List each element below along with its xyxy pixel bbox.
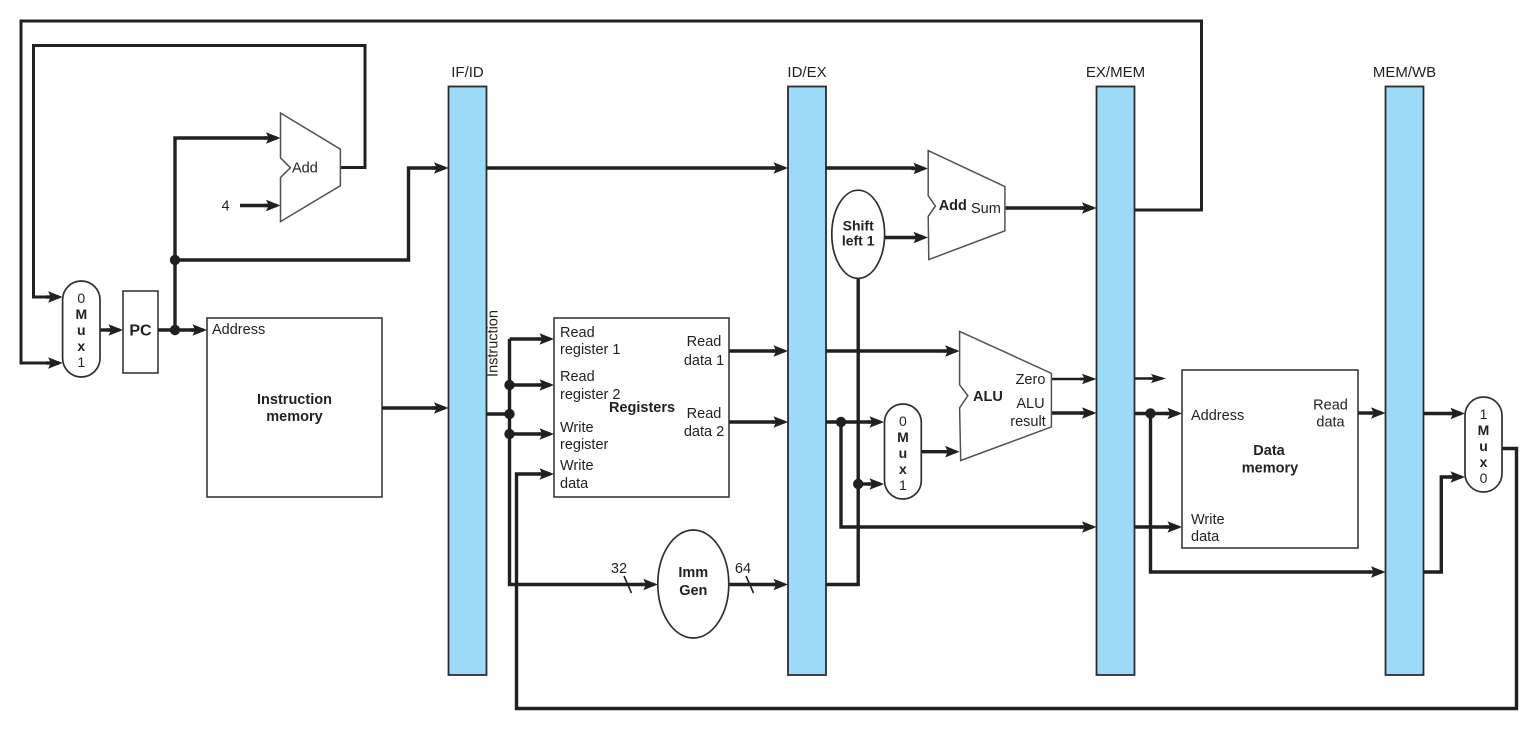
svg-text:4: 4	[221, 199, 229, 215]
svg-text:Read: Read	[560, 369, 595, 385]
svg-text:u: u	[1479, 438, 1488, 454]
svg-text:M: M	[897, 429, 909, 445]
svg-text:result: result	[1010, 414, 1045, 430]
svg-text:M: M	[75, 306, 87, 322]
svg-text:data 2: data 2	[684, 424, 724, 440]
svg-text:Read: Read	[687, 334, 722, 350]
svg-text:Read: Read	[560, 325, 595, 341]
svg-text:Instruction: Instruction	[486, 310, 502, 377]
svg-text:left 1: left 1	[842, 233, 875, 249]
svg-text:Sum: Sum	[971, 201, 1001, 217]
svg-text:memory: memory	[1242, 461, 1298, 477]
svg-text:IF/ID: IF/ID	[451, 64, 484, 81]
svg-text:Write: Write	[560, 458, 594, 474]
svg-text:64: 64	[735, 561, 751, 577]
svg-text:x: x	[77, 338, 85, 354]
svg-text:0: 0	[77, 290, 85, 306]
svg-text:Gen: Gen	[679, 583, 707, 599]
svg-text:M: M	[1478, 422, 1490, 438]
svg-text:1: 1	[1480, 406, 1488, 422]
svg-text:Read: Read	[687, 406, 722, 422]
svg-text:memory: memory	[266, 409, 322, 425]
svg-text:register 1: register 1	[560, 342, 620, 358]
svg-text:ALU: ALU	[973, 389, 1003, 405]
svg-text:ID/EX: ID/EX	[787, 64, 826, 81]
svg-text:MEM/WB: MEM/WB	[1373, 64, 1436, 81]
svg-text:data: data	[1191, 529, 1220, 545]
svg-text:ALU: ALU	[1016, 396, 1044, 412]
svg-text:0: 0	[899, 413, 907, 429]
svg-text:register: register	[560, 437, 609, 453]
svg-text:Write: Write	[1191, 512, 1225, 528]
svg-text:Write: Write	[560, 420, 594, 436]
svg-text:Data: Data	[1253, 443, 1285, 459]
svg-text:Read: Read	[1313, 398, 1348, 414]
svg-text:u: u	[77, 322, 86, 338]
svg-text:PC: PC	[129, 323, 152, 340]
svg-text:Zero: Zero	[1016, 372, 1046, 388]
svg-text:1: 1	[899, 477, 907, 493]
svg-text:Shift: Shift	[843, 218, 874, 234]
svg-text:Imm: Imm	[678, 565, 708, 581]
svg-text:Instruction: Instruction	[257, 392, 332, 408]
svg-text:1: 1	[77, 354, 85, 370]
svg-text:x: x	[899, 461, 907, 477]
svg-text:Address: Address	[212, 322, 265, 338]
svg-text:32: 32	[611, 561, 627, 577]
svg-text:Address: Address	[1191, 408, 1244, 424]
svg-text:Add: Add	[939, 198, 967, 214]
svg-text:Add: Add	[292, 160, 318, 176]
svg-text:0: 0	[1480, 470, 1488, 486]
svg-text:data: data	[1316, 415, 1345, 431]
svg-text:Registers: Registers	[609, 400, 675, 416]
svg-text:x: x	[1480, 454, 1488, 470]
svg-text:u: u	[899, 445, 908, 461]
svg-text:data: data	[560, 476, 589, 492]
svg-text:EX/MEM: EX/MEM	[1086, 64, 1145, 81]
svg-text:data 1: data 1	[684, 353, 724, 369]
